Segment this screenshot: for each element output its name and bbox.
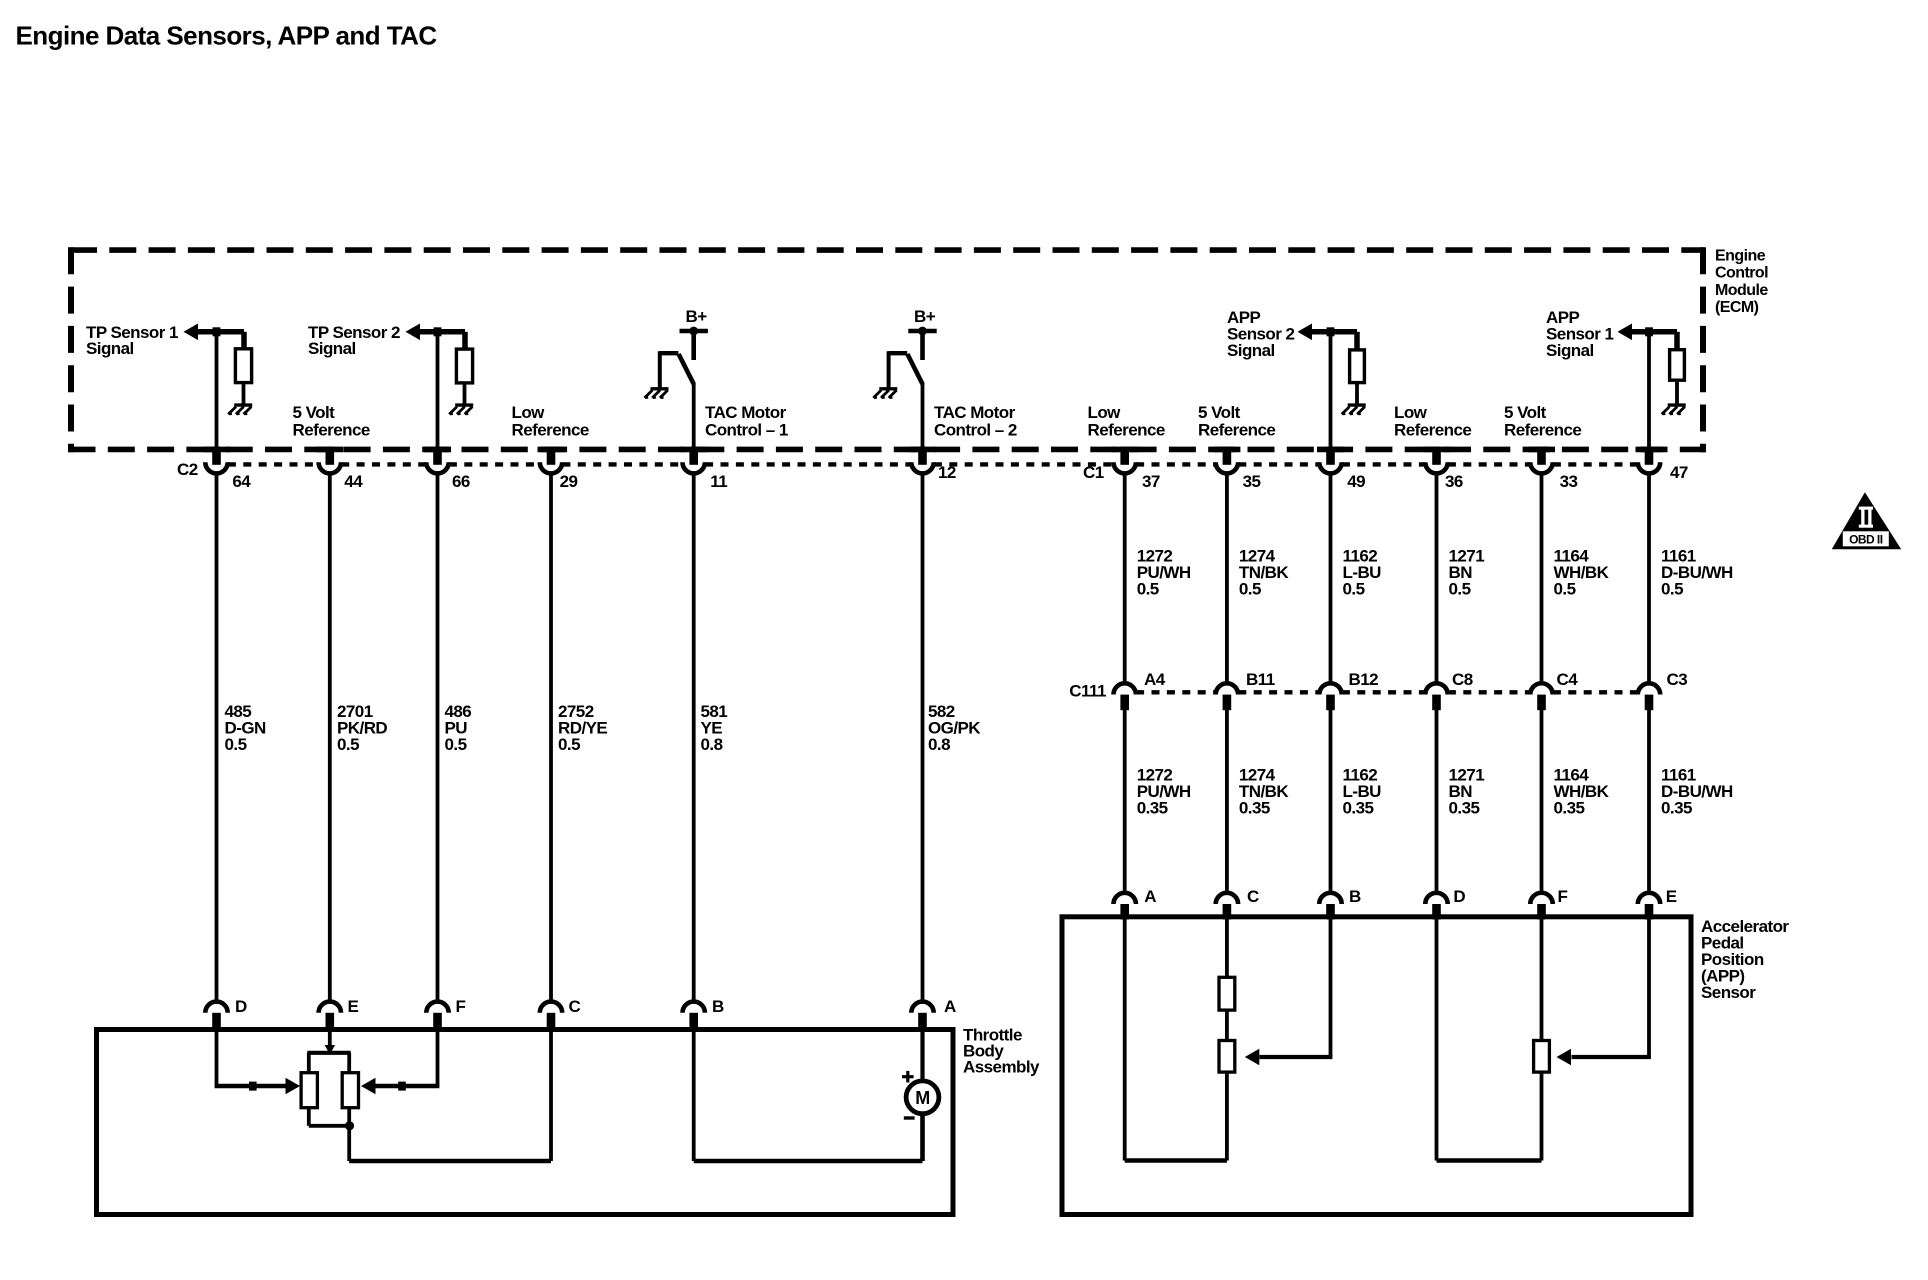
wire 1164 WH/BK 0.5 (ECM to C111) — [1540, 475, 1544, 685]
svg-text:B+: B+ — [686, 307, 708, 326]
svg-text:64: 64 — [232, 472, 251, 491]
svg-text:Signal: Signal — [308, 339, 356, 358]
connector pin 33 (ECM) — [1530, 462, 1552, 473]
svg-text:66: 66 — [452, 472, 470, 491]
wire: pin B to motor minus — [692, 1030, 696, 1161]
wire: pot bottom loop — [307, 1108, 311, 1126]
svg-text:Reference: Reference — [512, 420, 589, 439]
wire 1162 L-BU 0.5 (ECM to C111) — [1329, 475, 1333, 685]
connector C111 pin B12 — [1319, 683, 1341, 694]
svg-text:B+: B+ — [914, 307, 936, 326]
wire 1161 D-BU/WH 0.5 (ECM to C111) — [1647, 475, 1651, 685]
svg-text:TAC Motor: TAC Motor — [934, 403, 1016, 422]
svg-text:Low: Low — [1088, 403, 1122, 422]
junction: APP2 signal / pin 49 wire — [1327, 327, 1335, 336]
svg-text:0.35: 0.35 — [1554, 798, 1585, 817]
wire: resistor to ground — [463, 383, 467, 405]
wire 2752 RD/YE 0.5 (ECM to throttle body) — [549, 475, 553, 1001]
svg-text:35: 35 — [1243, 472, 1261, 491]
svg-text:A4: A4 — [1144, 670, 1166, 689]
connector pin 29 (ECM) — [540, 462, 562, 473]
connector pin 66 (ECM) — [426, 462, 448, 473]
svg-text:0.8: 0.8 — [928, 735, 950, 754]
wiper arrow: TP sensor 2 (points left into resistor) — [361, 1078, 376, 1095]
connector pin 12 (ECM) — [911, 462, 933, 473]
svg-text:C3: C3 — [1667, 670, 1688, 689]
svg-text:49: 49 — [1347, 472, 1365, 491]
svg-text:Control – 1: Control – 1 — [705, 420, 788, 439]
svg-text:Module: Module — [1715, 282, 1768, 299]
connector C111 pin C3 — [1638, 683, 1660, 694]
svg-text:0.5: 0.5 — [1137, 579, 1159, 598]
connector pin 47 (ECM) — [1638, 462, 1660, 473]
switch: TAC motor control 2 driver — [889, 351, 908, 355]
wire: pin E to pot top — [328, 1030, 332, 1046]
svg-text:33: 33 — [1560, 472, 1578, 491]
connector pin 64 (ECM) — [205, 462, 227, 473]
resistor: TP sensor 1 (throttle body pot) — [301, 1073, 317, 1108]
wire: pin A to motor plus — [920, 1030, 924, 1082]
svg-text:5 Volt: 5 Volt — [1198, 403, 1241, 422]
wire 485 D-GN 0.5 (ECM to throttle body) — [215, 475, 219, 1001]
svg-text:0.5: 0.5 — [1239, 579, 1261, 598]
arrow: TP Sensor 2 signal (points left) — [406, 324, 421, 341]
ground: TAC switch 1 — [645, 389, 669, 399]
resistor: APP sensor 2 divider upper — [1219, 977, 1235, 1010]
wire: junction to ECM pin 66 — [436, 332, 440, 449]
svg-text:Reference: Reference — [1088, 420, 1165, 439]
svg-text:(ECM): (ECM) — [1715, 299, 1759, 316]
wire: resistor to ground — [1675, 380, 1679, 405]
svg-text:C: C — [1247, 887, 1259, 906]
svg-text:Low: Low — [512, 403, 546, 422]
svg-text:47: 47 — [1670, 463, 1688, 482]
ECM boundary box (dashed) — [69, 247, 1706, 452]
svg-text:A: A — [944, 997, 956, 1016]
svg-text:F: F — [1558, 887, 1568, 906]
OBD II symbol (triangle) — [1832, 492, 1902, 549]
wire: APP sensor 2 element to bottom — [1225, 1072, 1229, 1160]
switch: TAC motor control 1 driver — [660, 351, 679, 355]
svg-text:B: B — [712, 997, 724, 1016]
connector throttle body pin A — [911, 1002, 933, 1013]
resistor: TP Sensor 2 pull-up — [456, 349, 472, 383]
connector pin 44 (ECM) — [319, 462, 341, 473]
wire: motor bottom — [920, 1114, 925, 1162]
connector throttle body pin E — [319, 1002, 341, 1013]
svg-text:D: D — [1453, 887, 1465, 906]
wire: APP pin C into divider — [1225, 918, 1229, 979]
wiper arrow: APP sensor 2 (points left) — [1245, 1049, 1260, 1066]
wire: APP pin B to sensor 2 wiper — [1329, 918, 1333, 1057]
ground: APP Sensor 2 — [1342, 405, 1366, 415]
harness dotted line (C111 row) — [1136, 690, 1638, 694]
junction dot on TP1 wiper wire — [249, 1082, 257, 1091]
connector pin 49 (ECM) — [1319, 462, 1341, 473]
connector throttle body pin B — [683, 1002, 705, 1013]
svg-text:Reference: Reference — [1504, 420, 1581, 439]
svg-text:0.35: 0.35 — [1343, 798, 1374, 817]
svg-text:Reference: Reference — [1198, 420, 1275, 439]
wire 581 YE 0.8 (ECM to throttle body) — [692, 475, 696, 1001]
wire 1274 TN/BK 0.5 (ECM to C111) — [1225, 475, 1229, 685]
svg-text:B: B — [1349, 887, 1361, 906]
wire 2701 PK/RD 0.5 (ECM to throttle body) — [328, 475, 332, 1001]
svg-text:0.35: 0.35 — [1661, 798, 1692, 817]
svg-text:C: C — [569, 997, 581, 1016]
wire 1271 BN 0.35 (C111 to APP sensor) — [1435, 710, 1439, 891]
connector throttle body pin D — [205, 1002, 227, 1013]
connector pin 36 (ECM) — [1425, 462, 1447, 473]
wire: junction to ECM pin 49 — [1329, 332, 1333, 449]
connector pin 35 (ECM) — [1216, 462, 1238, 473]
connector C111 pin C8 — [1425, 683, 1447, 694]
svg-text:0.5: 0.5 — [558, 735, 580, 754]
wire: resistor to ground — [1355, 383, 1359, 405]
svg-text:Signal: Signal — [86, 339, 134, 358]
connector throttle body pin C — [540, 1002, 562, 1013]
svg-text:Low: Low — [1394, 403, 1428, 422]
wire: junction to ECM pin 64 — [215, 332, 219, 449]
svg-text:F: F — [456, 997, 466, 1016]
motor M: TAC throttle actuator — [906, 1081, 939, 1114]
arrow: APP Sensor 2 signal (points left) — [1298, 324, 1313, 341]
svg-text:E: E — [348, 997, 359, 1016]
wire: APP sensor 1 element to bottom — [1540, 1072, 1544, 1160]
svg-text:0.5: 0.5 — [225, 735, 247, 754]
ground: APP Sensor 1 — [1662, 405, 1686, 415]
junction: TP2 signal / pin 66 wire — [434, 327, 442, 336]
wire: pot bottom to pin C — [347, 1108, 351, 1161]
arrow: APP Sensor 1 signal (points left) — [1618, 324, 1633, 341]
svg-text:C4: C4 — [1557, 670, 1579, 689]
wire 582 OG/PK 0.8 (ECM to throttle body) — [921, 475, 925, 1001]
wire 1274 TN/BK 0.35 (C111 to APP sensor) — [1225, 710, 1229, 891]
resistor: TP sensor 2 (throttle body pot) — [342, 1073, 358, 1108]
svg-text:TAC Motor: TAC Motor — [705, 403, 787, 422]
resistor: APP sensor 1 element — [1534, 1041, 1550, 1073]
svg-text:Signal: Signal — [1227, 341, 1275, 360]
wire: between divider resistors — [1225, 1010, 1229, 1041]
wire 1161 D-BU/WH 0.35 (C111 to APP sensor) — [1647, 710, 1651, 891]
svg-text:0.5: 0.5 — [445, 735, 467, 754]
connector APP sensor pin A — [1114, 893, 1136, 904]
svg-text:Signal: Signal — [1546, 341, 1594, 360]
wire: junction to ECM pin 47 — [1647, 332, 1651, 449]
connector APP sensor pin D — [1425, 893, 1447, 904]
wiper arrow: APP sensor 1 (points left) — [1557, 1049, 1572, 1066]
svg-text:0.5: 0.5 — [1449, 579, 1471, 598]
harness dotted line (ECM connector row) — [228, 462, 1638, 466]
svg-text:11: 11 — [710, 472, 727, 491]
resistor: APP Sensor 1 pull-up — [1670, 350, 1685, 381]
arrow: TP Sensor 1 signal (points left) — [184, 324, 199, 341]
wire 1272 PU/WH 0.35 (C111 to APP sensor) — [1123, 710, 1127, 891]
wire: APP Sensor 1 signal horizontal — [1630, 329, 1677, 335]
wire 1271 BN 0.5 (ECM to C111) — [1435, 475, 1439, 685]
svg-text:A: A — [1144, 887, 1156, 906]
arrow: E wire junction (points down) — [325, 1045, 335, 1055]
connector C111 pin C4 — [1530, 683, 1552, 694]
svg-text:D: D — [235, 997, 247, 1016]
connector APP sensor pin F — [1530, 893, 1552, 904]
wire: pin D to TP sensor 1 wiper — [215, 1030, 219, 1086]
svg-text:Control – 2: Control – 2 — [934, 420, 1017, 439]
resistor: APP Sensor 2 pull-up — [1350, 350, 1365, 383]
ground: TP Sensor 2 — [449, 405, 473, 415]
connector C111 pin B11 — [1216, 683, 1238, 694]
svg-text:5 Volt: 5 Volt — [1504, 403, 1547, 422]
wire: pin F to TP sensor 2 wiper — [436, 1030, 440, 1086]
svg-text:0.35: 0.35 — [1137, 798, 1168, 817]
connector pin 11 (ECM) — [683, 462, 705, 473]
svg-text:Sensor: Sensor — [1701, 983, 1756, 1002]
junction dot on TP2 wiper wire — [398, 1082, 406, 1091]
svg-text:E: E — [1666, 887, 1677, 906]
wire: APP Sensor 2 signal horizontal — [1310, 329, 1357, 335]
connector throttle body pin F — [426, 1002, 448, 1013]
connector APP sensor pin C — [1216, 893, 1238, 904]
svg-text:C111: C111 — [1069, 681, 1106, 700]
resistor: TP Sensor 1 pull-up — [235, 349, 251, 383]
wiper arrow: TP sensor 1 (points right into resistor) — [286, 1078, 301, 1095]
connector C111 pin A4 — [1114, 683, 1136, 694]
svg-text:0.5: 0.5 — [1343, 579, 1365, 598]
Throttle Body Assembly box — [97, 1030, 954, 1215]
svg-text:Engine: Engine — [1715, 248, 1766, 265]
svg-text:29: 29 — [560, 472, 578, 491]
connector APP sensor pin E — [1638, 893, 1660, 904]
svg-text:B12: B12 — [1349, 670, 1379, 689]
svg-text:37: 37 — [1142, 472, 1160, 491]
wire 1164 WH/BK 0.35 (C111 to APP sensor) — [1540, 710, 1544, 891]
junction: APP1 signal / pin 47 wire — [1645, 327, 1653, 336]
svg-text:M: M — [915, 1088, 929, 1108]
svg-text:0.8: 0.8 — [701, 735, 723, 754]
junction: TP1 signal / pin 64 wire — [213, 327, 221, 336]
wire: resistor to ground — [242, 383, 246, 405]
ECM border dashes at pin crossings — [203, 447, 1663, 453]
svg-text:44: 44 — [344, 472, 363, 491]
svg-text:12: 12 — [938, 463, 956, 482]
Accelerator Pedal Position (APP) Sensor box — [1062, 917, 1691, 1215]
svg-text:C2: C2 — [177, 460, 198, 479]
wire: TP Sensor 2 signal horizontal — [418, 329, 465, 335]
wire: APP pin A to pot bottom — [1123, 918, 1127, 1161]
ground: TP Sensor 1 — [228, 405, 252, 415]
svg-text:B11: B11 — [1246, 670, 1275, 689]
wire: pot top loop — [307, 1051, 350, 1055]
svg-text:C8: C8 — [1452, 670, 1473, 689]
svg-text:OBD II: OBD II — [1849, 533, 1883, 547]
connector pin 37 (ECM) — [1114, 462, 1136, 473]
wire: APP pin F into element — [1540, 918, 1544, 1042]
svg-text:0.35: 0.35 — [1449, 798, 1480, 817]
svg-text:Reference: Reference — [293, 420, 370, 439]
wire: switch 2 to ECM pin — [921, 383, 925, 449]
wire: switch 1 to ECM pin — [692, 383, 696, 449]
svg-text:0.35: 0.35 — [1239, 798, 1270, 817]
svg-text:Control: Control — [1715, 265, 1768, 282]
wire: TP Sensor 1 signal horizontal — [196, 329, 244, 335]
connector APP sensor pin B — [1319, 893, 1341, 904]
resistor: APP sensor 2 element — [1219, 1041, 1235, 1073]
junction dot: pot bottom — [345, 1121, 354, 1130]
svg-text:5 Volt: 5 Volt — [293, 403, 336, 422]
wire 1162 L-BU 0.35 (C111 to APP sensor) — [1329, 710, 1333, 891]
label: motor + terminal — [902, 1071, 914, 1083]
svg-text:Reference: Reference — [1394, 420, 1471, 439]
svg-text:36: 36 — [1445, 472, 1463, 491]
wire: APP pin D to pot bottom — [1435, 918, 1439, 1161]
svg-text:Engine Data Sensors, APP and T: Engine Data Sensors, APP and TAC — [16, 20, 438, 50]
ground: TAC switch 2 — [873, 389, 897, 399]
wire 1272 PU/WH 0.5 (ECM to C111) — [1123, 475, 1127, 685]
svg-text:0.5: 0.5 — [1554, 579, 1576, 598]
svg-text:0.5: 0.5 — [337, 735, 359, 754]
wire: APP pin E to sensor 1 wiper — [1647, 918, 1651, 1057]
svg-text:0.5: 0.5 — [1661, 579, 1683, 598]
svg-text:Assembly: Assembly — [963, 1057, 1040, 1076]
wire 486 PU 0.5 (ECM to throttle body) — [436, 475, 440, 1001]
label: motor minus terminal — [904, 1116, 915, 1119]
